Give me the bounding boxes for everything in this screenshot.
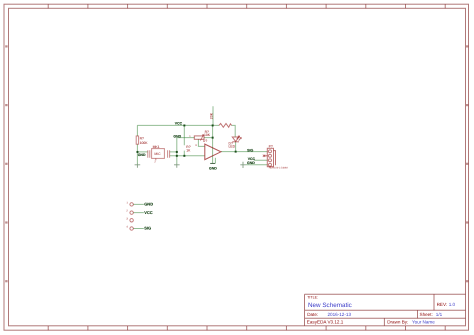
svg-text:20K: 20K [209, 112, 213, 119]
svg-text:Sheet:: Sheet: [420, 312, 433, 317]
svg-text:100K: 100K [140, 141, 149, 145]
svg-text:Your Name: Your Name [412, 320, 435, 325]
svg-text:SIG: SIG [144, 226, 151, 231]
svg-text:10K: 10K [204, 133, 211, 137]
svg-text:GND: GND [173, 134, 181, 138]
svg-text:EasyEDA V3.12.1: EasyEDA V3.12.1 [307, 320, 344, 325]
svg-text:HDR1X4-2.54MM: HDR1X4-2.54MM [269, 167, 288, 170]
svg-text:VCC: VCC [175, 122, 183, 126]
svg-text:P?: P? [269, 145, 273, 149]
svg-text:1/1: 1/1 [436, 312, 443, 317]
svg-text:Drawn By:: Drawn By: [387, 320, 408, 325]
svg-text:MIC: MIC [154, 152, 161, 156]
svg-text:1: 1 [126, 201, 128, 204]
svg-text:REV:: REV: [437, 302, 448, 307]
svg-text:3: 3 [126, 217, 128, 220]
svg-text:GND: GND [247, 161, 255, 165]
svg-text:1.0: 1.0 [449, 302, 456, 307]
svg-text:SIG: SIG [247, 148, 253, 152]
svg-text:MK1: MK1 [153, 145, 160, 149]
svg-text:VCC: VCC [144, 210, 153, 215]
svg-text:4: 4 [126, 226, 128, 229]
svg-text:2: 2 [126, 210, 128, 213]
svg-text:3: 3 [195, 144, 197, 147]
svg-text:GND: GND [209, 167, 217, 171]
svg-text:Date:: Date: [307, 312, 318, 317]
svg-text:GND: GND [138, 153, 146, 157]
svg-text:2016-12-13: 2016-12-13 [328, 312, 352, 317]
svg-text:1K: 1K [186, 149, 191, 153]
svg-text:New Schematic: New Schematic [308, 302, 352, 309]
svg-text:LED: LED [229, 144, 236, 148]
svg-text:U?: U? [203, 139, 207, 143]
svg-text:2: 2 [154, 161, 156, 164]
svg-text:TITLE:: TITLE: [307, 296, 318, 300]
svg-text:GND: GND [144, 202, 153, 207]
